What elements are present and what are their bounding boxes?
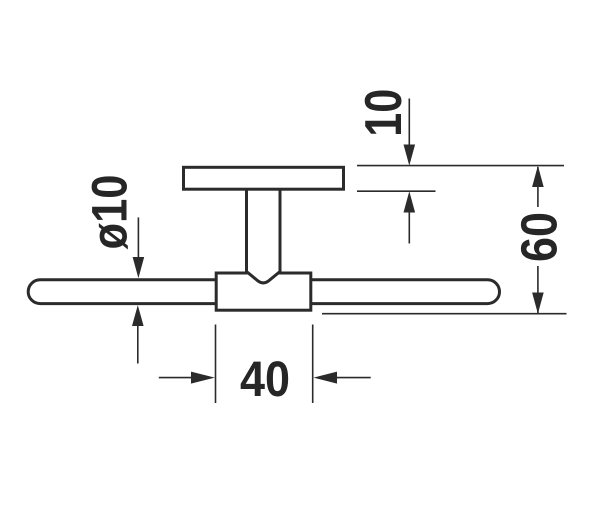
- dim 10 extension line plate top: [357, 165, 564, 167]
- post right edge: [279, 189, 282, 270]
- svg-text:ø10: ø10: [82, 175, 138, 250]
- dim 10 lower dim line: [408, 212, 410, 244]
- svg-text:60: 60: [511, 212, 568, 262]
- dim o10 upper dim line: [137, 217, 139, 259]
- dim 60 dim line: [537, 167, 539, 313]
- arrow 60 down: [532, 293, 544, 314]
- dim 40 right dim line: [336, 377, 371, 379]
- dim 40 left dim line: [159, 377, 192, 379]
- post tip (rounded V): [247, 269, 281, 283]
- svg-text:10: 10: [355, 89, 413, 137]
- centre mounting block: [216, 273, 311, 310]
- arrow 10 down to plate top: [404, 145, 416, 166]
- dim 10 upper dim line: [408, 99, 410, 147]
- arrow o10 down to bar top: [133, 257, 145, 278]
- post left edge: [245, 189, 248, 270]
- dim 60 extension line block bottom: [322, 313, 567, 315]
- white backing for 60 label: [520, 207, 558, 266]
- dim 40 left extension line: [215, 325, 217, 404]
- arrow 40 left-pointing: [314, 372, 338, 384]
- dim 40 right extension line: [312, 325, 314, 404]
- arrow 60 up: [532, 166, 544, 187]
- arrow o10 up to bar bottom: [132, 305, 144, 326]
- wall plate: [184, 167, 344, 189]
- dim o10 lower dim line: [137, 325, 139, 364]
- arrow 40 right-pointing: [191, 372, 215, 384]
- arrow 10 up to plate bottom: [404, 191, 416, 212]
- dim 10 extension line plate bottom: [357, 190, 436, 192]
- towel bar: [28, 280, 499, 304]
- svg-text:40: 40: [240, 351, 290, 407]
